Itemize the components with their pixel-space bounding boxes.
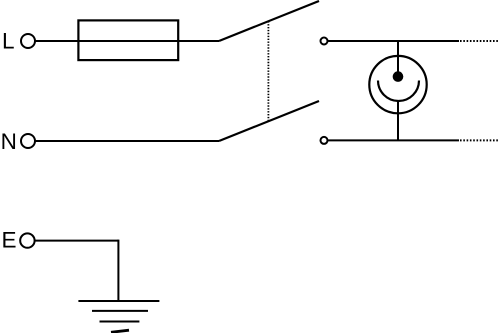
terminal N (21, 134, 35, 148)
ground bar 4 (111, 330, 129, 332)
lamp contact dot (393, 71, 404, 82)
switch mechanical link (dotted) (267, 21, 269, 121)
wire E horizontal (35, 240, 118, 242)
ground bar 1 (78, 300, 159, 302)
svg-text:L: L (2, 29, 15, 54)
ground bar 2 (92, 310, 148, 312)
wire lamp bottom lead (397, 101, 399, 141)
svg-text:N: N (1, 129, 17, 154)
wire E vertical (117, 240, 119, 301)
wire lamp top lead (397, 41, 399, 74)
svg-text:E: E (2, 228, 17, 253)
wire switched live (328, 40, 460, 42)
ground bar 3 (100, 321, 140, 323)
wire continuation neutral (dotted) (460, 139, 499, 141)
wire continuation live (dotted) (460, 40, 499, 42)
lamp filament arc (378, 81, 419, 102)
terminal switched neutral (321, 137, 328, 144)
wire switched neutral (328, 139, 460, 141)
wire L to switch (35, 40, 219, 42)
terminal L (21, 34, 35, 48)
fuse F1 (78, 20, 178, 60)
terminal switched live (321, 38, 328, 45)
lamp LP1 outline (369, 56, 426, 113)
terminal E (20, 233, 34, 247)
switch pole 2 (219, 101, 319, 141)
wire N to switch (35, 140, 219, 142)
switch pole 1 (219, 1, 319, 41)
